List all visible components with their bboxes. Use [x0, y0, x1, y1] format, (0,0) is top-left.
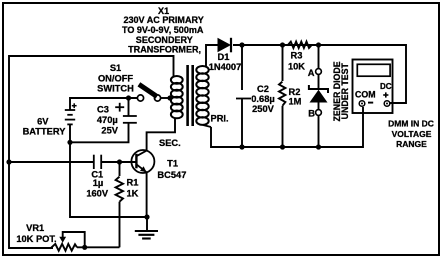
- svg-text:RANGE: RANGE: [396, 139, 427, 149]
- svg-text:VR1: VR1: [26, 223, 44, 233]
- svg-text:SECONDERY: SECONDERY: [136, 35, 193, 45]
- svg-text:R1: R1: [127, 178, 139, 188]
- svg-text:ON/OFF: ON/OFF: [98, 74, 133, 84]
- svg-text:S1: S1: [110, 63, 121, 73]
- svg-text:C2: C2: [257, 84, 269, 94]
- svg-text:D1: D1: [218, 52, 230, 62]
- svg-text:1µ: 1µ: [93, 178, 104, 188]
- svg-text:1N4007: 1N4007: [209, 62, 242, 72]
- svg-text:DMM IN DC: DMM IN DC: [388, 119, 434, 129]
- svg-text:T1: T1: [167, 159, 178, 169]
- svg-text:470µ: 470µ: [97, 115, 118, 125]
- svg-text:TRANSFORMER,: TRANSFORMER,: [128, 45, 201, 55]
- svg-text:1M: 1M: [289, 97, 302, 107]
- svg-text:10K POT.: 10K POT.: [16, 234, 56, 244]
- svg-text:SWITCH: SWITCH: [97, 84, 134, 94]
- svg-text:25V: 25V: [101, 126, 118, 136]
- svg-text:A: A: [308, 68, 315, 78]
- svg-text:160V: 160V: [86, 188, 109, 198]
- svg-text:R2: R2: [289, 87, 301, 97]
- svg-text:C3: C3: [97, 104, 109, 114]
- svg-text:VOLTAGE: VOLTAGE: [392, 129, 432, 139]
- svg-text:230V AC PRIMARY: 230V AC PRIMARY: [123, 15, 203, 25]
- svg-text:SEC.: SEC.: [159, 138, 181, 148]
- svg-text:BC547: BC547: [157, 170, 186, 180]
- svg-text:COM: COM: [355, 89, 376, 99]
- svg-text:DC: DC: [380, 82, 392, 91]
- svg-text:UNDER TEST: UNDER TEST: [340, 62, 350, 119]
- svg-text:6V: 6V: [37, 117, 49, 127]
- svg-text:TO 9V-0-9V, 500mA: TO 9V-0-9V, 500mA: [122, 25, 204, 35]
- svg-text:250V: 250V: [252, 104, 275, 114]
- svg-text:B: B: [308, 109, 315, 119]
- svg-text:R3: R3: [291, 51, 303, 61]
- svg-text:PRI.: PRI.: [211, 114, 229, 124]
- svg-text:BATTERY: BATTERY: [23, 127, 67, 137]
- svg-text:1K: 1K: [127, 189, 139, 199]
- svg-text:10K: 10K: [288, 62, 305, 72]
- svg-text:0.68µ: 0.68µ: [251, 94, 274, 104]
